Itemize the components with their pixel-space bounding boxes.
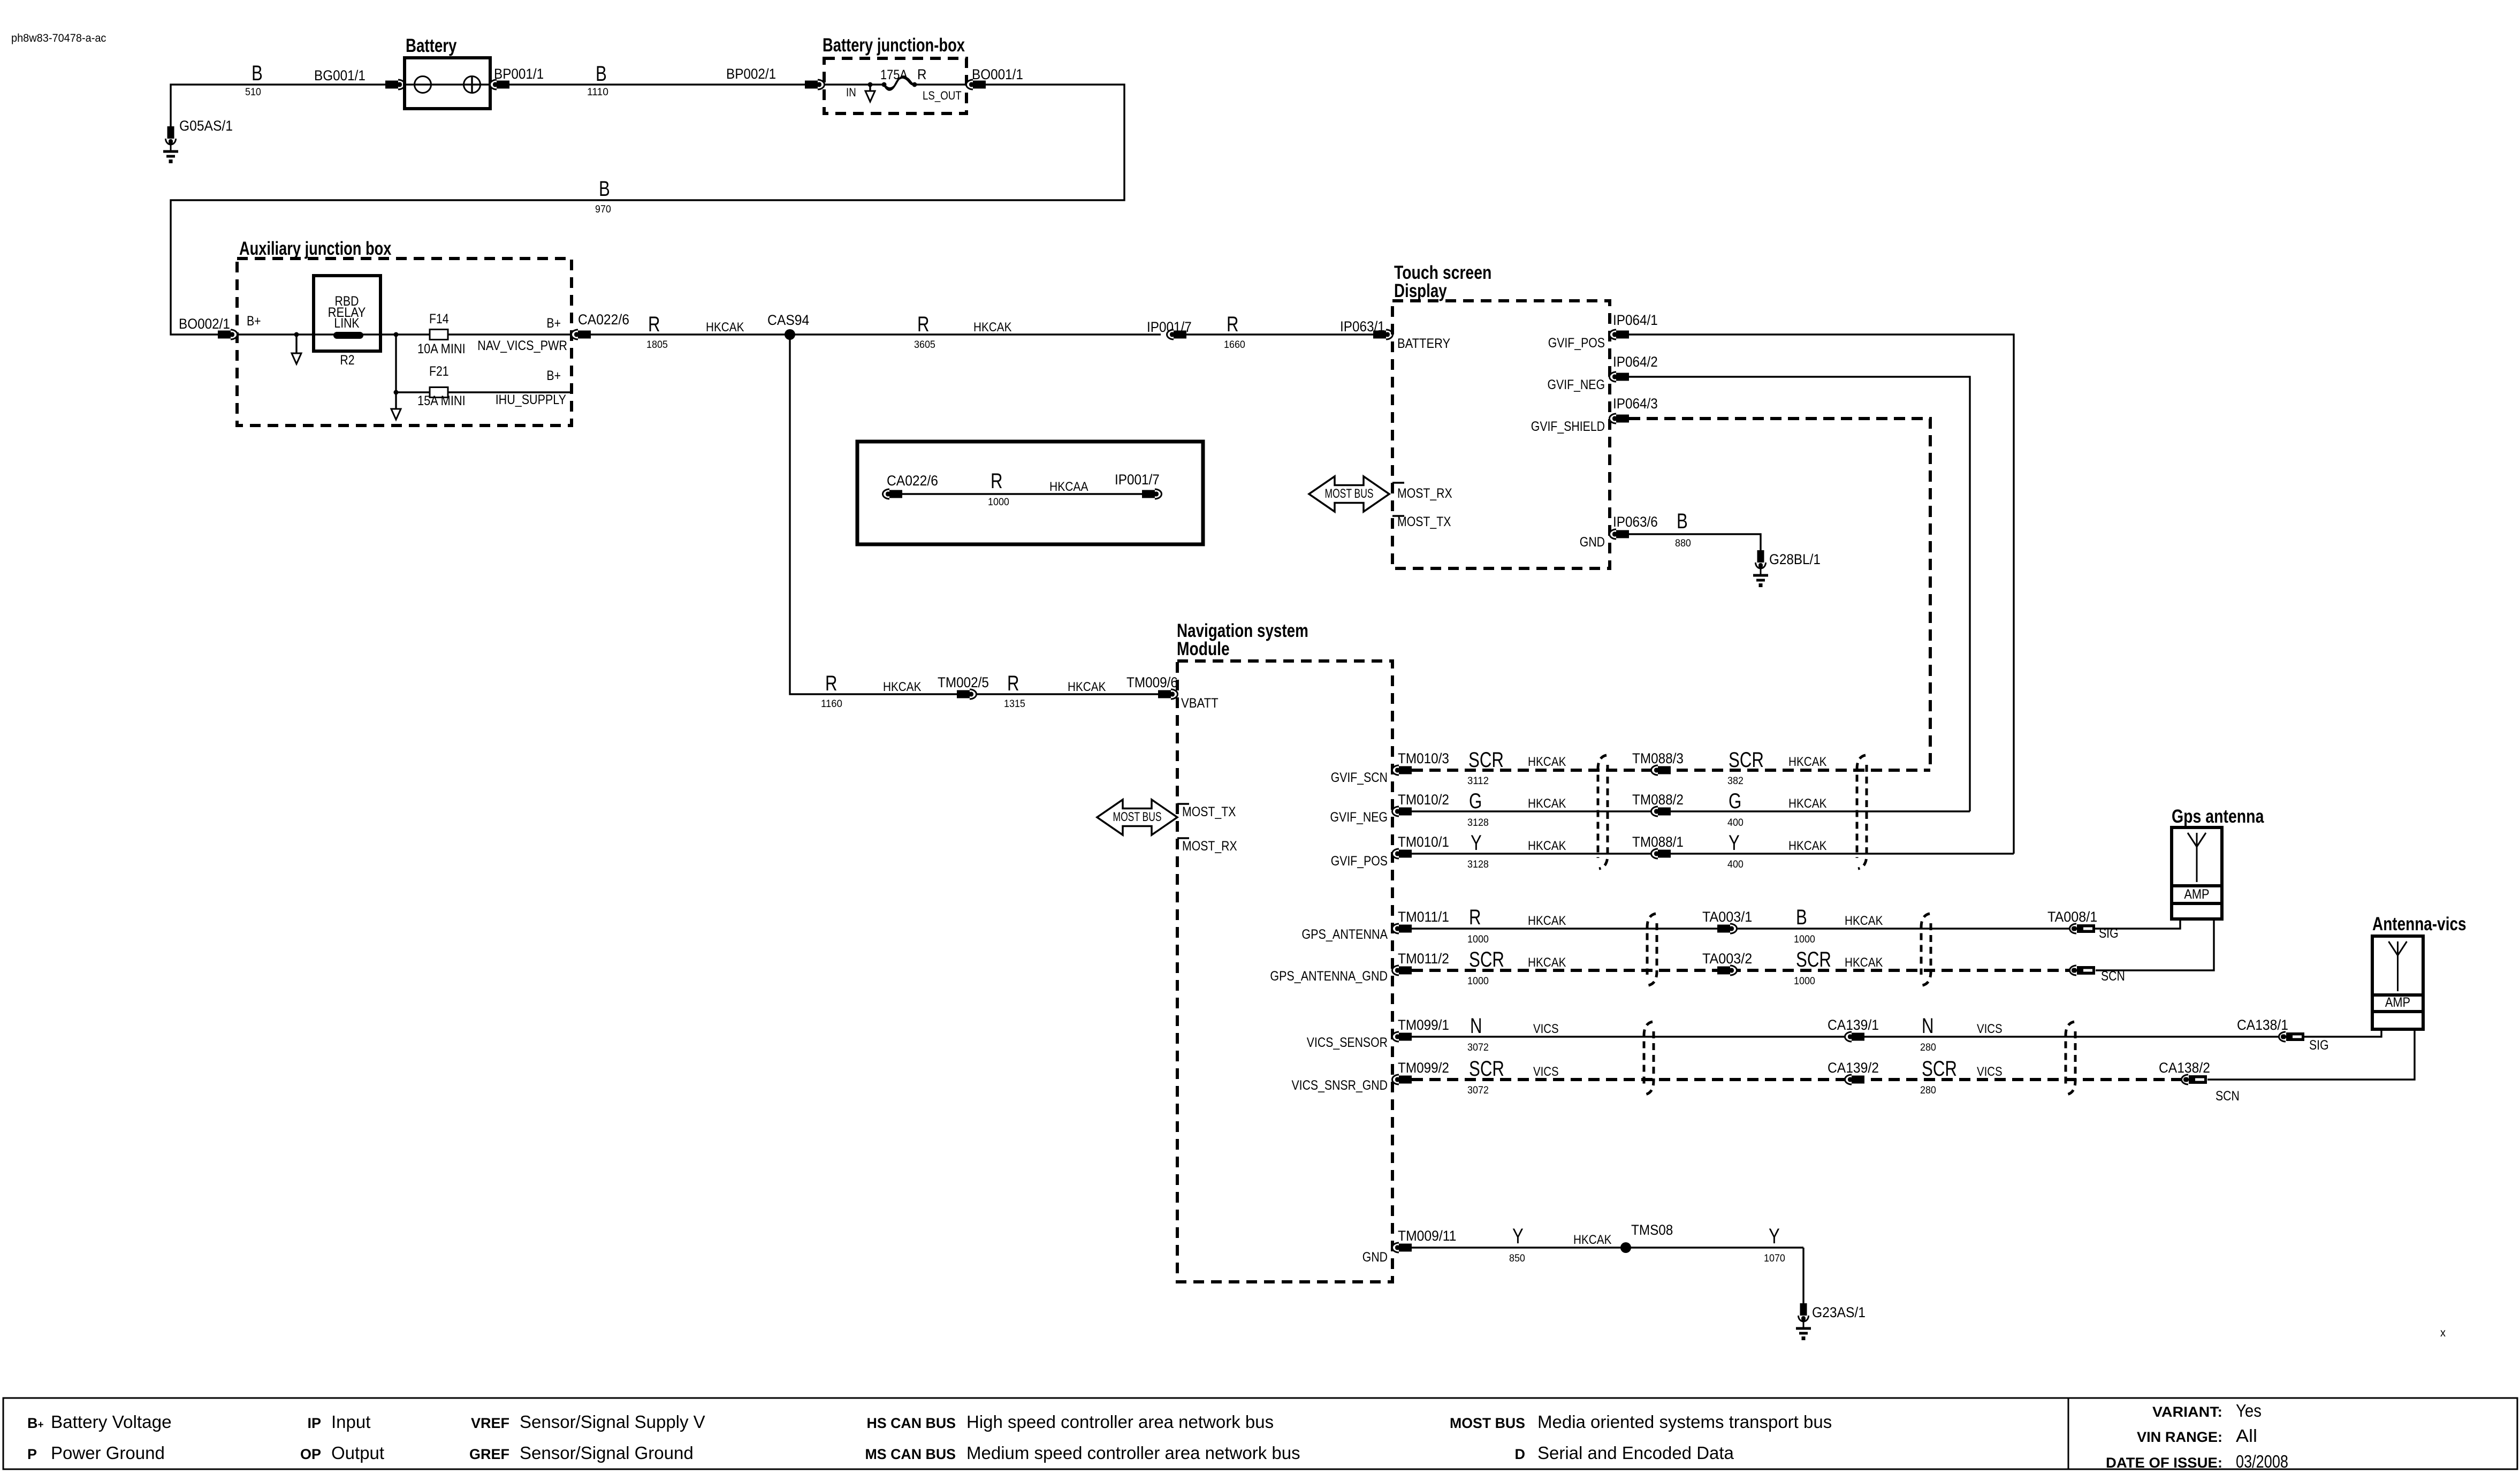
shield wire SCR 1000 HKCAK bbox=[1412, 969, 2070, 972]
wire SCN to GPS antenna bbox=[2096, 919, 2214, 970]
svg-text:SCR: SCR bbox=[1468, 748, 1504, 772]
svg-text:Serial and Encoded Data: Serial and Encoded Data bbox=[1537, 1443, 1734, 1463]
pin stub MOST_RX (nav) bbox=[1177, 837, 1189, 839]
svg-text:3112: 3112 bbox=[1467, 775, 1489, 787]
svg-text:1660: 1660 bbox=[1224, 339, 1245, 351]
svg-text:BO002/1: BO002/1 bbox=[179, 316, 230, 332]
svg-text:GND: GND bbox=[1580, 535, 1605, 550]
svg-text:B: B bbox=[252, 62, 263, 85]
inset harness box CA022/6 to IP001/7 bbox=[857, 442, 1203, 544]
inline connector pass-through (VICS rows, left) bbox=[1644, 1022, 1653, 1084]
svg-text:BP002/1: BP002/1 bbox=[726, 66, 776, 82]
svg-text:R2: R2 bbox=[340, 353, 354, 368]
svg-text:ph8w83-70478-a-ac: ph8w83-70478-a-ac bbox=[11, 32, 106, 44]
svg-text:TM010/2: TM010/2 bbox=[1398, 792, 1449, 808]
ground G23AS/1 bbox=[1796, 1303, 1811, 1340]
svg-text:IN: IN bbox=[846, 86, 856, 99]
svg-text:MOST_RX: MOST_RX bbox=[1397, 486, 1452, 501]
svg-text:Medium speed controller area n: Medium speed controller area network bus bbox=[966, 1443, 1300, 1463]
svg-text:1000: 1000 bbox=[1794, 933, 1815, 945]
svg-text:CA138/2: CA138/2 bbox=[2159, 1060, 2210, 1076]
svg-text:Sensor/Signal Supply V: Sensor/Signal Supply V bbox=[520, 1412, 705, 1432]
svg-text:15A MINI: 15A MINI bbox=[417, 393, 466, 408]
svg-text:R: R bbox=[825, 672, 838, 695]
svg-text:TM088/1: TM088/1 bbox=[1632, 834, 1684, 850]
svg-text:MOST BUS: MOST BUS bbox=[1450, 1415, 1525, 1431]
connector IP001/7 (inset) bbox=[1142, 489, 1162, 499]
svg-text:03/2008: 03/2008 bbox=[2236, 1452, 2288, 1471]
svg-text:GPS_ANTENNA_GND: GPS_ANTENNA_GND bbox=[1270, 969, 1388, 984]
svg-text:Gps antenna: Gps antenna bbox=[2172, 806, 2264, 827]
connector BO001/1 bbox=[966, 80, 986, 89]
svg-text:280: 280 bbox=[1920, 1042, 1936, 1053]
svg-text:TM088/3: TM088/3 bbox=[1632, 750, 1684, 766]
svg-text:TM011/1: TM011/1 bbox=[1398, 909, 1449, 925]
wire Y 3128 HKCAK bbox=[1412, 853, 2014, 854]
svg-text:D: D bbox=[1515, 1446, 1526, 1462]
svg-text:GPS_ANTENNA: GPS_ANTENNA bbox=[1301, 927, 1388, 942]
svg-text:Battery: Battery bbox=[406, 35, 457, 56]
svg-text:B+: B+ bbox=[546, 368, 561, 383]
svg-text:VIN RANGE:: VIN RANGE: bbox=[2137, 1429, 2222, 1445]
svg-text:HKCAK: HKCAK bbox=[1788, 755, 1826, 769]
wire R 1315 bbox=[976, 693, 1158, 695]
svg-text:B+: B+ bbox=[247, 314, 261, 329]
svg-text:High speed controller area net: High speed controller area network bus bbox=[966, 1412, 1274, 1432]
svg-text:SIG: SIG bbox=[2309, 1038, 2329, 1053]
svg-text:HKCAK: HKCAK bbox=[1573, 1233, 1611, 1247]
svg-text:G: G bbox=[1729, 789, 1741, 813]
connector CA022/6 (inset) bbox=[883, 489, 903, 499]
wire R 1660 bbox=[1186, 333, 1373, 335]
wire GVIF_NEG to vertical bbox=[1629, 377, 1970, 811]
svg-text:TM099/1: TM099/1 bbox=[1398, 1017, 1449, 1033]
svg-text:3128: 3128 bbox=[1467, 817, 1489, 829]
svg-text:VICS: VICS bbox=[1977, 1065, 2003, 1079]
svg-text:HKCAK: HKCAK bbox=[1845, 955, 1883, 970]
ground G28BL/1 bbox=[1753, 550, 1768, 587]
svg-text:HKCAK: HKCAK bbox=[973, 320, 1011, 335]
junction node F21 row bbox=[394, 390, 399, 395]
svg-text:1000: 1000 bbox=[988, 496, 1009, 508]
power ground arrow below F21 branch bbox=[395, 392, 397, 409]
svg-text:1070: 1070 bbox=[1764, 1252, 1785, 1264]
svg-text:SCR: SCR bbox=[1469, 948, 1504, 971]
RBD RELAY LINK R2 bbox=[314, 276, 380, 351]
junction node F21 branch bbox=[394, 332, 399, 337]
wire Y 1070 to ground bbox=[1802, 1248, 1804, 1303]
svg-text:BP001/1: BP001/1 bbox=[494, 66, 544, 82]
svg-text:Display: Display bbox=[1394, 280, 1447, 301]
battery plus terminal bbox=[464, 77, 481, 93]
svg-text:B: B bbox=[1796, 906, 1807, 929]
svg-text:Input: Input bbox=[331, 1412, 370, 1432]
svg-text:TA003/2: TA003/2 bbox=[1702, 951, 1752, 967]
svg-text:1000: 1000 bbox=[1794, 975, 1815, 987]
battery minus terminal bbox=[415, 77, 431, 93]
svg-text:IP063/6: IP063/6 bbox=[1613, 514, 1658, 530]
svg-text:TM011/2: TM011/2 bbox=[1398, 951, 1449, 967]
connector CA022/6 bbox=[572, 330, 591, 339]
shield wire GVIF_SHIELD dashed bbox=[1629, 419, 1930, 770]
wire B 1110 bbox=[509, 83, 805, 85]
svg-text:MOST_TX: MOST_TX bbox=[1182, 804, 1236, 819]
svg-text:VBATT: VBATT bbox=[1181, 696, 1219, 711]
junction node in battery junction-box bbox=[868, 82, 873, 87]
svg-text:GREF: GREF bbox=[469, 1446, 509, 1462]
svg-text:LS_OUT: LS_OUT bbox=[923, 89, 962, 102]
svg-text:TM009/6: TM009/6 bbox=[1126, 674, 1178, 690]
svg-text:175A: 175A bbox=[880, 67, 908, 82]
svg-text:TA008/1: TA008/1 bbox=[2047, 909, 2097, 925]
svg-text:B: B bbox=[596, 62, 607, 86]
wire B 880 to ground bbox=[1629, 534, 1761, 550]
power ground arrow in battery junction-box bbox=[869, 85, 871, 91]
wire B 510 battery negative to ground bbox=[171, 85, 385, 126]
svg-text:R: R bbox=[917, 313, 930, 336]
svg-text:Antenna-vics: Antenna-vics bbox=[2372, 914, 2466, 934]
svg-text:B: B bbox=[1677, 510, 1688, 533]
svg-text:GVIF_NEG: GVIF_NEG bbox=[1548, 377, 1605, 392]
svg-text:TM002/5: TM002/5 bbox=[938, 674, 989, 690]
svg-text:IP064/2: IP064/2 bbox=[1613, 354, 1658, 370]
svg-text:Power Ground: Power Ground bbox=[51, 1443, 165, 1463]
svg-text:VICS: VICS bbox=[1533, 1022, 1559, 1036]
svg-text:1110: 1110 bbox=[587, 86, 608, 98]
fuse F21 15A MINI bbox=[396, 391, 430, 393]
svg-text:DATE OF ISSUE:: DATE OF ISSUE: bbox=[2106, 1455, 2222, 1471]
svg-text:TM010/3: TM010/3 bbox=[1398, 750, 1449, 766]
pin stub MOST_RX bbox=[1392, 482, 1404, 483]
svg-text:HKCAK: HKCAK bbox=[1528, 914, 1566, 928]
wire G 3128 HKCAK bbox=[1412, 810, 1970, 812]
svg-text:GND: GND bbox=[1362, 1250, 1388, 1265]
svg-text:All: All bbox=[2236, 1426, 2257, 1446]
svg-text:Y: Y bbox=[1471, 831, 1482, 855]
svg-text:NAV_VICS_PWR: NAV_VICS_PWR bbox=[477, 338, 567, 353]
svg-text:HKCAK: HKCAK bbox=[1068, 680, 1106, 694]
svg-text:1000: 1000 bbox=[1467, 933, 1489, 945]
wire N 3072 VICS bbox=[1412, 1029, 2381, 1037]
svg-text:280: 280 bbox=[1920, 1084, 1936, 1096]
svg-text:MOST_RX: MOST_RX bbox=[1182, 839, 1237, 854]
svg-text:HKCAK: HKCAK bbox=[1528, 755, 1566, 769]
svg-text:P: P bbox=[27, 1446, 37, 1462]
svg-text:G05AS/1: G05AS/1 bbox=[179, 118, 233, 134]
shield wire SCR 3112 HKCAK bbox=[1412, 769, 1930, 772]
svg-text:3072: 3072 bbox=[1467, 1042, 1489, 1053]
svg-text:CA022/6: CA022/6 bbox=[887, 473, 938, 489]
svg-text:B+: B+ bbox=[546, 316, 561, 331]
svg-text:F14: F14 bbox=[429, 311, 449, 326]
svg-text:AMP: AMP bbox=[2184, 887, 2209, 902]
svg-text:1000: 1000 bbox=[1467, 975, 1489, 987]
svg-text:1805: 1805 bbox=[646, 339, 668, 351]
inline connector pass-through (GVIF rows, right) bbox=[1857, 755, 1866, 858]
svg-text:Y: Y bbox=[1769, 1225, 1780, 1248]
svg-text:Y: Y bbox=[1729, 831, 1740, 855]
svg-text:Battery Voltage: Battery Voltage bbox=[51, 1412, 172, 1432]
svg-text:N: N bbox=[1922, 1014, 1934, 1038]
svg-text:N: N bbox=[1470, 1014, 1482, 1038]
svg-text:BO001/1: BO001/1 bbox=[972, 66, 1023, 82]
svg-text:HKCAK: HKCAK bbox=[1788, 839, 1826, 853]
MOST bus arrow (display) bbox=[1309, 476, 1389, 512]
svg-text:CA139/2: CA139/2 bbox=[1828, 1060, 1879, 1076]
svg-text:3128: 3128 bbox=[1467, 858, 1489, 870]
connector TA008/2 SCN bbox=[2070, 966, 2096, 975]
pin stub MOST_TX bbox=[1392, 515, 1404, 516]
svg-text:HKCAK: HKCAK bbox=[1528, 955, 1566, 970]
svg-text:510: 510 bbox=[245, 86, 261, 98]
svg-text:BG001/1: BG001/1 bbox=[314, 67, 366, 83]
svg-text:VARIANT:: VARIANT: bbox=[2152, 1404, 2222, 1420]
svg-text:AMP: AMP bbox=[2385, 995, 2410, 1010]
svg-text:SCR: SCR bbox=[1922, 1057, 1957, 1081]
svg-text:VICS_SNSR_GND: VICS_SNSR_GND bbox=[1292, 1078, 1388, 1093]
svg-text:MOST BUS: MOST BUS bbox=[1325, 487, 1374, 501]
svg-text:VICS_SENSOR: VICS_SENSOR bbox=[1307, 1035, 1388, 1050]
wire B 970 to auxiliary junction box bbox=[171, 85, 1124, 335]
inline connector pass-through (GPS rows, left) bbox=[1647, 914, 1656, 975]
svg-text:880: 880 bbox=[1675, 537, 1691, 549]
svg-text:IHU_SUPPLY: IHU_SUPPLY bbox=[496, 392, 567, 407]
svg-text:HKCAK: HKCAK bbox=[883, 680, 921, 694]
wire R 1805 HKCAK bbox=[591, 333, 1161, 335]
svg-text:1160: 1160 bbox=[821, 698, 842, 710]
svg-text:IP064/1: IP064/1 bbox=[1613, 312, 1658, 328]
wire R 1000 HKCAA bbox=[902, 493, 1142, 495]
svg-text:CA022/6: CA022/6 bbox=[578, 311, 629, 328]
footer legend box bbox=[3, 1398, 2517, 1469]
svg-text:TA003/1: TA003/1 bbox=[1702, 909, 1752, 925]
svg-text:VICS: VICS bbox=[1533, 1065, 1559, 1079]
wire SCN to Antenna-vics bbox=[2207, 1029, 2415, 1080]
svg-text:IP064/3: IP064/3 bbox=[1613, 396, 1658, 412]
svg-text:HKCAK: HKCAK bbox=[1788, 796, 1826, 811]
svg-text:HS CAN BUS: HS CAN BUS bbox=[867, 1415, 956, 1431]
svg-text:R: R bbox=[648, 313, 660, 336]
svg-text:OP: OP bbox=[300, 1446, 321, 1462]
svg-text:10A MINI: 10A MINI bbox=[417, 341, 466, 356]
svg-text:R: R bbox=[1227, 313, 1239, 336]
svg-text:GVIF_SHIELD: GVIF_SHIELD bbox=[1531, 419, 1605, 434]
power ground arrow below relay bbox=[295, 335, 297, 353]
ground G05AS/1 bbox=[163, 126, 178, 163]
svg-text:B: B bbox=[599, 177, 610, 201]
svg-text:SCR: SCR bbox=[1469, 1057, 1504, 1081]
svg-text:IP: IP bbox=[308, 1415, 322, 1431]
svg-text:TM009/11: TM009/11 bbox=[1398, 1228, 1456, 1244]
svg-text:400: 400 bbox=[1727, 858, 1744, 870]
svg-text:HKCAK: HKCAK bbox=[706, 320, 744, 335]
svg-text:Y: Y bbox=[1512, 1225, 1524, 1248]
svg-text:SIG: SIG bbox=[2099, 926, 2119, 941]
svg-text:R: R bbox=[917, 66, 927, 82]
svg-text:SCR: SCR bbox=[1796, 948, 1831, 971]
svg-text:GVIF_POS: GVIF_POS bbox=[1548, 336, 1605, 351]
svg-text:970: 970 bbox=[595, 203, 611, 215]
svg-text:TMS08: TMS08 bbox=[1631, 1222, 1673, 1238]
svg-text:BATTERY: BATTERY bbox=[1397, 336, 1450, 351]
svg-text:HKCAK: HKCAK bbox=[1845, 914, 1883, 928]
svg-text:Media oriented systems transpo: Media oriented systems transport bus bbox=[1537, 1412, 1832, 1432]
svg-text:R: R bbox=[991, 469, 1003, 493]
svg-text:Yes: Yes bbox=[2236, 1401, 2262, 1420]
svg-text:CAS94: CAS94 bbox=[767, 312, 809, 328]
branch wire to F21 bbox=[395, 335, 397, 392]
wire R 1000 HKCAK to GPS antenna bbox=[1412, 919, 2180, 929]
svg-text:MOST_TX: MOST_TX bbox=[1397, 514, 1451, 529]
svg-text:382: 382 bbox=[1727, 775, 1744, 787]
svg-text:850: 850 bbox=[1509, 1252, 1525, 1264]
svg-text:R: R bbox=[1469, 906, 1481, 929]
svg-text:R: R bbox=[1007, 672, 1019, 695]
svg-text:G28BL/1: G28BL/1 bbox=[1769, 551, 1821, 567]
svg-text:x: x bbox=[2440, 1327, 2446, 1339]
svg-text:Battery junction-box: Battery junction-box bbox=[823, 35, 965, 56]
svg-text:F21: F21 bbox=[429, 364, 449, 379]
wire Y 850 HKCAK bbox=[1412, 1247, 1803, 1248]
svg-text:LINK: LINK bbox=[334, 316, 359, 331]
svg-text:VICS: VICS bbox=[1977, 1022, 2003, 1036]
svg-text:SCR: SCR bbox=[1729, 748, 1764, 772]
svg-text:B+: B+ bbox=[27, 1415, 44, 1431]
svg-text:CA138/1: CA138/1 bbox=[2237, 1017, 2288, 1033]
B+ wire through relay link bbox=[237, 333, 430, 335]
svg-text:CA139/1: CA139/1 bbox=[1828, 1017, 1879, 1033]
svg-text:3072: 3072 bbox=[1467, 1084, 1489, 1096]
svg-text:G23AS/1: G23AS/1 bbox=[1812, 1304, 1866, 1320]
svg-text:HKCAK: HKCAK bbox=[1528, 796, 1566, 811]
svg-text:IP001/7: IP001/7 bbox=[1115, 472, 1160, 488]
svg-text:TM099/2: TM099/2 bbox=[1398, 1060, 1449, 1076]
MOST bus arrow (nav module) bbox=[1097, 800, 1177, 835]
svg-text:VREF: VREF bbox=[471, 1415, 509, 1431]
svg-text:MOST BUS: MOST BUS bbox=[1113, 810, 1162, 824]
svg-text:HKCAK: HKCAK bbox=[1528, 839, 1566, 853]
svg-text:Sensor/Signal Ground: Sensor/Signal Ground bbox=[520, 1443, 694, 1463]
junction node R2 feed bbox=[294, 332, 299, 337]
pin stub MOST_TX (nav) bbox=[1177, 803, 1189, 804]
inline connector pass-through (VICS rows, right) bbox=[2066, 1022, 2074, 1084]
inline connector pass-through (GPS rows, right) bbox=[1921, 914, 1930, 975]
svg-text:MS CAN BUS: MS CAN BUS bbox=[865, 1446, 956, 1462]
svg-text:GVIF_NEG: GVIF_NEG bbox=[1330, 810, 1388, 825]
svg-text:TM010/1: TM010/1 bbox=[1398, 834, 1449, 850]
wire GVIF_POS to vertical bbox=[1629, 335, 2014, 854]
svg-text:HKCAA: HKCAA bbox=[1049, 480, 1088, 494]
svg-text:Module: Module bbox=[1177, 639, 1230, 659]
svg-text:Output: Output bbox=[331, 1443, 384, 1463]
inline connector pass-through (GVIF rows, left) bbox=[1598, 755, 1607, 858]
svg-text:3605: 3605 bbox=[914, 339, 935, 351]
svg-text:SCN: SCN bbox=[2216, 1089, 2240, 1104]
shield wire SCR 3072 VICS bbox=[1412, 1078, 2182, 1081]
wire R 1160 from CAS94 bbox=[790, 335, 957, 694]
connector BP001/1 bbox=[490, 80, 510, 89]
svg-text:Auxiliary junction box: Auxiliary junction box bbox=[239, 238, 392, 259]
svg-text:1315: 1315 bbox=[1004, 698, 1025, 710]
svg-text:TM088/2: TM088/2 bbox=[1632, 792, 1684, 808]
svg-text:GVIF_POS: GVIF_POS bbox=[1331, 854, 1388, 869]
svg-text:400: 400 bbox=[1727, 817, 1744, 829]
svg-text:G: G bbox=[1469, 789, 1482, 813]
svg-text:GVIF_SCN: GVIF_SCN bbox=[1331, 770, 1388, 785]
